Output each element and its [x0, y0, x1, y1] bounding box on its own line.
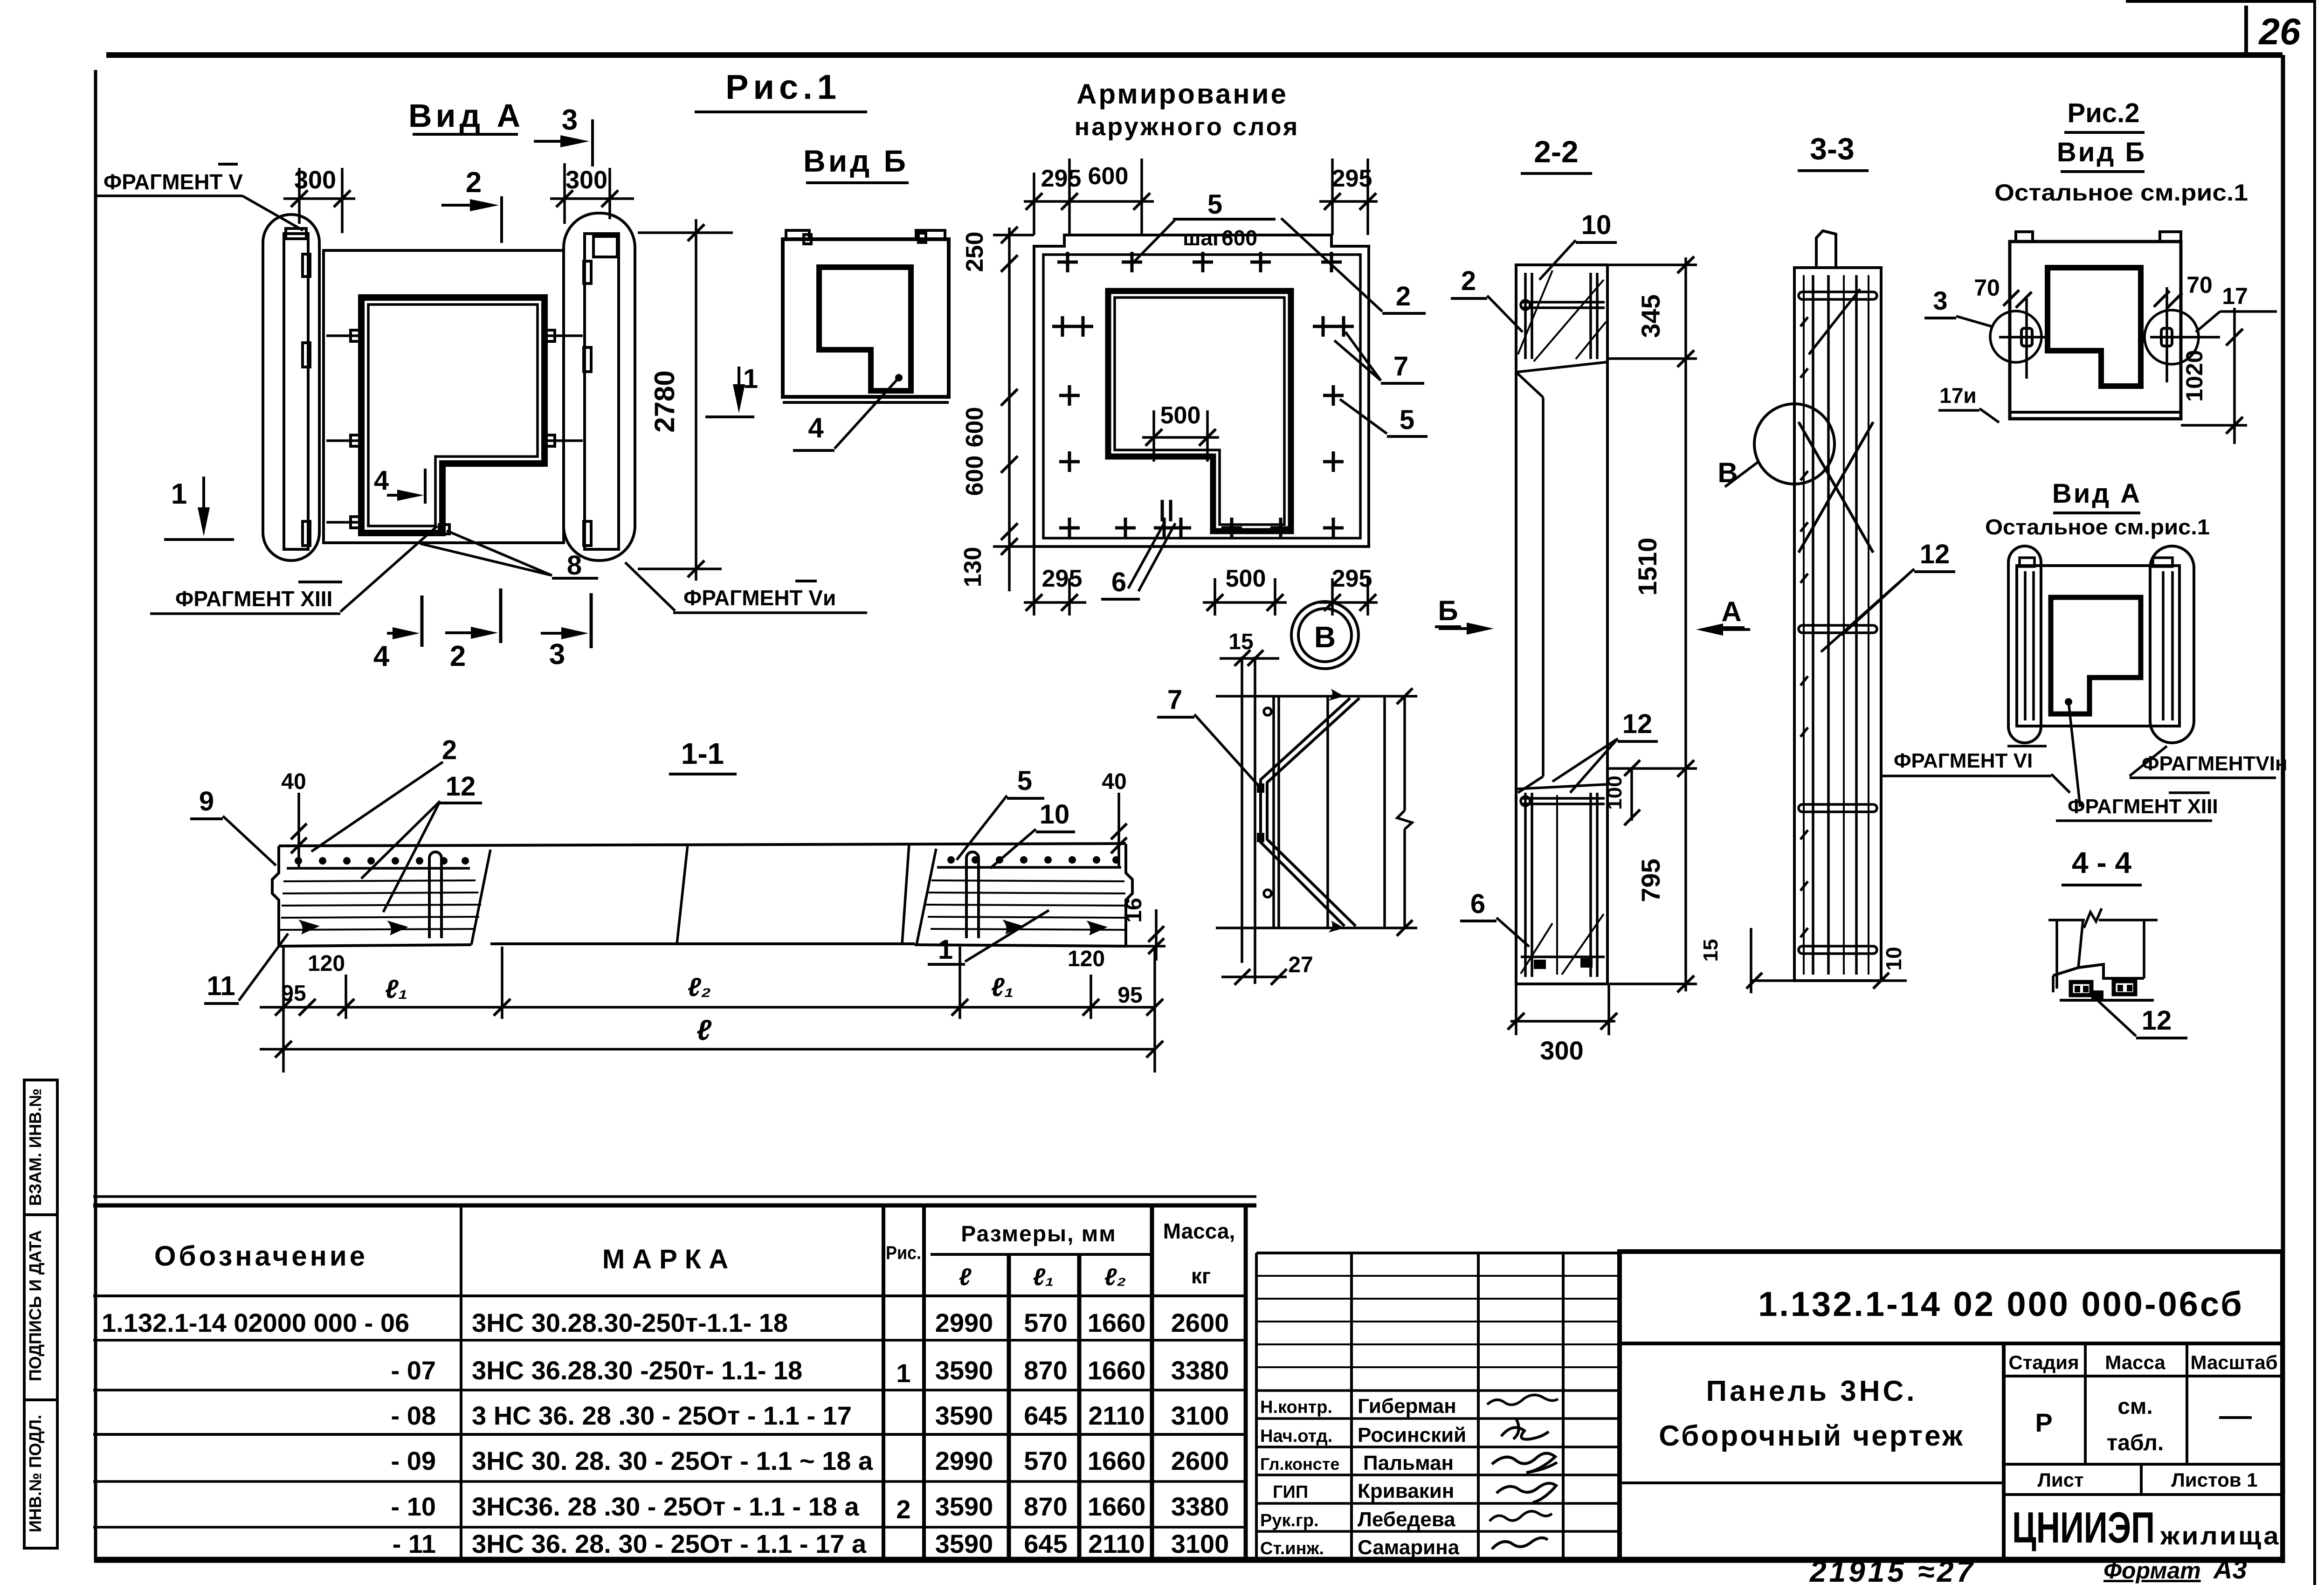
svg-text:17и: 17и: [1939, 383, 1976, 408]
left bolt: [2021, 328, 2032, 346]
svg-text:ПОДПИСЬ И ДАТА: ПОДПИСЬ И ДАТА: [26, 1230, 45, 1381]
right bolt: [2161, 328, 2172, 346]
window opening thick L: [2051, 597, 2141, 714]
svg-text:4: 4: [374, 465, 389, 496]
svg-text:Кривакин: Кривакин: [1358, 1480, 1454, 1502]
plus marks right col: [1313, 316, 1333, 337]
svg-text:95: 95: [1117, 983, 1142, 1008]
svg-text:3590: 3590: [935, 1356, 993, 1385]
bottom shelf: [2053, 964, 2144, 978]
svg-text:795: 795: [1636, 858, 1665, 902]
svg-text:2600: 2600: [1171, 1446, 1229, 1475]
table column line l2/massa: [1150, 1204, 1154, 1560]
svg-text:ФРАГМЕНТ XIII: ФРАГМЕНТ XIII: [175, 587, 332, 611]
svg-text:870: 870: [1024, 1356, 1067, 1385]
svg-text:1660: 1660: [1088, 1356, 1146, 1385]
sig col role/name: [1350, 1253, 1353, 1560]
svg-text:295: 295: [1042, 565, 1083, 592]
bottom double edge: [783, 401, 949, 404]
svg-text:4: 4: [373, 640, 390, 672]
svg-text:наружного слоя: наружного слоя: [1075, 113, 1300, 141]
svg-text:600: 600: [961, 456, 988, 496]
window opening thick L: [2048, 268, 2141, 386]
svg-text:ℓ₂: ℓ₂: [1104, 1264, 1126, 1291]
right block: [917, 849, 936, 945]
svg-text:250: 250: [961, 232, 988, 272]
left circle: [1990, 311, 2041, 362]
svg-text:12: 12: [2142, 1005, 2172, 1036]
right capsule: [564, 213, 635, 561]
svg-text:1: 1: [743, 364, 758, 394]
signature squiggle 4: [1496, 1483, 1556, 1502]
svg-text:ℓ: ℓ: [697, 1014, 712, 1046]
verticals: [2055, 920, 2058, 989]
svg-text:1: 1: [896, 1358, 910, 1388]
node circle on edge: [1754, 404, 1834, 484]
table column line l/l1: [1007, 1254, 1011, 1560]
svg-text:2: 2: [450, 640, 466, 672]
svg-text:295: 295: [1332, 565, 1372, 592]
svg-text:2: 2: [442, 735, 457, 765]
VIEW ARMIR: [959, 78, 1428, 669]
svg-text:345: 345: [1636, 294, 1665, 338]
FIG2 VID-B: [1924, 98, 2277, 444]
sidebar divider 2: [24, 1398, 57, 1401]
svg-text:- 10: - 10: [391, 1492, 436, 1521]
svg-text:5: 5: [1207, 189, 1222, 220]
svg-text:4 - 4: 4 - 4: [2072, 846, 2131, 879]
svg-text:3 НС 36. 28 .30 - 25От - 1.1 -: 3 НС 36. 28 .30 - 25От - 1.1 - 17: [472, 1401, 852, 1430]
right capsule: [2150, 546, 2194, 743]
table header bottom line: [93, 1294, 1246, 1297]
top tabs: [2016, 232, 2033, 242]
middle web bottom: [490, 942, 915, 945]
bottom border line: [94, 1557, 2283, 1563]
svg-text:Н.контр.: Н.контр.: [1260, 1398, 1332, 1417]
signature squiggle 2: [1501, 1419, 1549, 1440]
svg-text:570: 570: [1024, 1446, 1067, 1475]
svg-text:7: 7: [1393, 351, 1408, 381]
panel rect: [2017, 566, 2179, 726]
svg-text:Масса: Масса: [2105, 1351, 2165, 1373]
svg-text:3НС36. 28 .30 - 25От - 1.1 - 1: 3НС36. 28 .30 - 25От - 1.1 - 18 а: [472, 1492, 859, 1521]
svg-text:100: 100: [1603, 775, 1626, 810]
table subheader line: [931, 1253, 1152, 1256]
top bolts: [804, 235, 811, 244]
svg-text:В: В: [1717, 457, 1738, 488]
list divider: [2140, 1464, 2143, 1495]
dim 2780: [695, 219, 697, 581]
horizontal rebar loops: [1799, 292, 1877, 299]
svg-text:ГИП: ГИП: [1273, 1482, 1308, 1502]
svg-text:ℓ: ℓ: [959, 1264, 972, 1291]
svg-text:70: 70: [2186, 272, 2213, 298]
bent rebar double line: [1267, 698, 1359, 926]
svg-text:1660: 1660: [1088, 1446, 1146, 1475]
svg-text:1660: 1660: [1088, 1492, 1146, 1521]
svg-text:Остальное см.рис.1: Остальное см.рис.1: [1994, 180, 2248, 206]
svg-text:3НС 36.28.30 -250т- 1.1- 18: 3НС 36.28.30 -250т- 1.1- 18: [472, 1356, 802, 1385]
svg-text:9: 9: [199, 786, 214, 817]
column outline: [1516, 265, 1607, 984]
svg-text:6: 6: [1470, 889, 1485, 919]
svg-text:3НС 36. 28. 30 - 25От - 1.1 -: 3НС 36. 28. 30 - 25От - 1.1 - 17 а: [472, 1529, 867, 1558]
SECTION 2-2: [1435, 134, 1750, 1065]
svg-text:Обозначение: Обозначение: [154, 1240, 368, 1272]
svg-text:ЦНИИЭП: ЦНИИЭП: [2012, 1503, 2155, 1552]
bottom dim ticks: [1751, 979, 1794, 982]
svg-text:2990: 2990: [935, 1308, 993, 1337]
svg-text:Формат: Формат: [2103, 1557, 2201, 1584]
svg-text:Масштаб: Масштаб: [2190, 1351, 2277, 1373]
svg-text:Пальман: Пальман: [1363, 1452, 1454, 1474]
list row top line: [2004, 1463, 2283, 1466]
svg-text:Листов 1: Листов 1: [2171, 1469, 2257, 1491]
svg-text:27: 27: [1288, 953, 1313, 977]
small circles: [1264, 708, 1271, 715]
left capsule: [263, 215, 319, 561]
table row line 2: [93, 1389, 1246, 1391]
svg-text:645: 645: [1024, 1401, 1067, 1430]
value dash: [2219, 1416, 2252, 1419]
svg-text:600: 600: [1088, 163, 1129, 190]
sig block left edge: [1255, 1253, 1258, 1560]
svg-text:500: 500: [1160, 402, 1201, 429]
dim 100: [1630, 768, 1633, 821]
left border line: [94, 70, 97, 1562]
right outer sheet edge: [2313, 0, 2316, 1585]
svg-text:500: 500: [1226, 565, 1266, 592]
svg-text:16: 16: [1122, 898, 1146, 922]
sig col sign/date: [1562, 1253, 1565, 1560]
svg-text:5: 5: [1017, 766, 1032, 796]
svg-text:2990: 2990: [935, 1446, 993, 1475]
dim 16 right: [1155, 909, 1158, 961]
signature squiggle 3: [1492, 1453, 1557, 1473]
right inner border line: [2281, 55, 2285, 1563]
name cell bottom line: [1620, 1481, 2004, 1484]
top block bottom edge: [1516, 362, 1609, 372]
panel outline: [324, 250, 564, 543]
svg-text:17: 17: [2222, 283, 2248, 309]
leader dot: [2065, 698, 2072, 706]
svg-text:Лист: Лист: [2037, 1469, 2083, 1491]
left strip hooks: [303, 254, 310, 277]
svg-text:ФРАГМЕНТ XIII: ФРАГМЕНТ XIII: [2068, 795, 2218, 818]
svg-text:А3: А3: [2213, 1555, 2247, 1584]
svg-text:жилища: жилища: [2160, 1522, 2281, 1550]
svg-text:600: 600: [961, 407, 988, 448]
capsule strips: [2024, 571, 2027, 720]
svg-text:21915 ≈27: 21915 ≈27: [1809, 1555, 1976, 1585]
circled V mark: [1291, 602, 1359, 669]
svg-text:1: 1: [171, 478, 187, 510]
doc number row line: [1620, 1342, 2283, 1345]
table right edge massa: [1244, 1204, 1248, 1560]
table row line 5: [93, 1526, 1246, 1529]
svg-text:3100: 3100: [1171, 1401, 1229, 1430]
left block: [272, 846, 471, 946]
FIG2 VID-A: [1985, 478, 2288, 821]
window opening thick L: [361, 298, 545, 533]
table row line 4: [93, 1480, 1246, 1483]
panel square: [783, 239, 949, 397]
svg-text:70: 70: [1974, 275, 2000, 301]
svg-text:ℓ₂: ℓ₂: [688, 972, 711, 1002]
svg-text:8: 8: [567, 550, 582, 581]
sig name rows: [1256, 1389, 1620, 1392]
right circle: [2145, 310, 2199, 364]
window thin inner: [1115, 298, 1284, 525]
svg-text:Б: Б: [1438, 595, 1458, 626]
svg-text:1.132.1-14 02 000 000-06сб: 1.132.1-14 02 000 000-06сб: [1758, 1285, 2244, 1323]
svg-text:ФРАГМЕНТ Vи: ФРАГМЕНТ Vи: [683, 586, 836, 610]
extension verticals: [282, 948, 285, 1073]
svg-text:3: 3: [562, 104, 578, 136]
svg-text:1.132.1-14 02000 000 - 06: 1.132.1-14 02000 000 - 06: [102, 1308, 409, 1337]
vertical divider name/stamp: [2002, 1343, 2006, 1560]
svg-text:ℓ₁: ℓ₁: [1033, 1264, 1054, 1291]
svg-text:1: 1: [938, 934, 953, 965]
svg-text:3380: 3380: [1171, 1492, 1229, 1521]
table column line l1/l2: [1077, 1254, 1082, 1560]
svg-text:Р: Р: [2035, 1408, 2052, 1437]
plus marks left col: [1052, 316, 1073, 337]
left dark anchors: [298, 920, 320, 934]
svg-text:3: 3: [549, 638, 565, 671]
svg-text:2: 2: [466, 166, 482, 199]
svg-text:40: 40: [281, 769, 306, 794]
svg-text:4: 4: [808, 412, 824, 443]
VIEW VID-A: [96, 97, 867, 672]
svg-text:1-1: 1-1: [681, 737, 724, 770]
svg-text:295: 295: [1332, 165, 1372, 192]
l dimension with break: [1403, 696, 1406, 810]
svg-text:10: 10: [1581, 210, 1612, 240]
table top double line: [93, 1195, 1256, 1198]
svg-text:2110: 2110: [1088, 1529, 1145, 1558]
svg-text:А: А: [1721, 596, 1741, 627]
right dim chain: [1684, 257, 1687, 991]
svg-text:шаг600: шаг600: [1183, 226, 1257, 250]
right hook thick: [2114, 981, 2135, 994]
VIEW VID-B: [695, 68, 949, 450]
svg-text:Ст.инж.: Ст.инж.: [1260, 1539, 1324, 1558]
svg-text:5: 5: [1400, 405, 1414, 435]
svg-text:табл.: табл.: [2107, 1431, 2164, 1455]
SECTION 1-1: [190, 735, 1165, 1073]
svg-text:ИНВ.№ ПОДЛ.: ИНВ.№ ПОДЛ.: [26, 1415, 45, 1532]
dim 300 bottom: [1510, 1020, 1615, 1023]
bolt marks row2: [326, 439, 361, 442]
svg-text:3НС 30.28.30-250т-1.1- 18: 3НС 30.28.30-250т-1.1- 18: [472, 1308, 788, 1337]
right strip hooks: [584, 261, 591, 284]
top block rebar: [1524, 273, 1527, 359]
svg-text:Вид Б: Вид Б: [803, 144, 909, 178]
svg-text:- 09: - 09: [391, 1446, 436, 1475]
svg-text:Рис.1: Рис.1: [725, 68, 841, 106]
SIGNATURE BLOCK: [1256, 1253, 1620, 1560]
TITLE BLOCK: [1620, 1252, 2283, 1585]
svg-text:2110: 2110: [1088, 1401, 1145, 1430]
svg-text:6: 6: [1111, 567, 1126, 597]
sig block top line: [1256, 1252, 1620, 1254]
left rebar dots: [295, 857, 469, 865]
detail top edge: [1216, 695, 1417, 698]
svg-text:Нач.отд.: Нач.отд.: [1260, 1426, 1332, 1446]
svg-text:295: 295: [1041, 165, 1082, 192]
svg-text:Сборочный чертеж: Сборочный чертеж: [1659, 1420, 1965, 1452]
svg-text:2: 2: [1396, 281, 1411, 311]
list row bottom line: [2004, 1493, 2283, 1496]
svg-text:12: 12: [1920, 539, 1950, 569]
NODE B DETAIL: [1157, 630, 1417, 985]
sheet top edge: [2126, 0, 2315, 3]
weld blob: [2091, 990, 2103, 1002]
svg-text:3100: 3100: [1171, 1529, 1229, 1558]
table column line ris/sizes: [922, 1204, 926, 1560]
svg-text:Масса,: Масса,: [1163, 1219, 1235, 1243]
svg-text:3НС 30. 28. 30 - 25От - 1.1 ~: 3НС 30. 28. 30 - 25От - 1.1 ~ 18 а: [472, 1446, 873, 1475]
right dark anchors: [1002, 920, 1024, 934]
svg-text:Росинский: Росинский: [1358, 1424, 1466, 1447]
svg-text:Лебедева: Лебедева: [1358, 1508, 1455, 1531]
svg-text:12: 12: [446, 771, 476, 802]
table row line 1: [93, 1339, 1246, 1342]
svg-text:300: 300: [1540, 1036, 1583, 1065]
svg-text:Армирование: Армирование: [1076, 78, 1288, 110]
svg-text:3590: 3590: [935, 1529, 993, 1558]
bolt marks row1: [326, 334, 361, 337]
MAIN TABLE: [93, 1197, 1256, 1560]
svg-text:ℓ₁: ℓ₁: [991, 972, 1014, 1002]
strip top tabs: [2020, 558, 2034, 567]
svg-text:12: 12: [1622, 709, 1653, 739]
shaft inner lines: [1516, 784, 1607, 789]
svg-text:Гл.консте: Гл.консте: [1260, 1454, 1339, 1474]
svg-text:ФРАГМЕНТVIн: ФРАГМЕНТVIн: [2142, 752, 2288, 775]
window thin inner line: [368, 305, 538, 526]
svg-text:120: 120: [1068, 947, 1105, 971]
svg-text:570: 570: [1024, 1308, 1067, 1337]
svg-text:2: 2: [1461, 266, 1476, 296]
title block outline: [1620, 1252, 2283, 1560]
svg-text:120: 120: [308, 951, 345, 976]
svg-text:3-3: 3-3: [1810, 132, 1854, 166]
bolt mark bottom: [326, 521, 361, 524]
svg-text:ФРАГМЕНТ V: ФРАГМЕНТ V: [103, 170, 243, 194]
svg-text:3590: 3590: [935, 1492, 993, 1521]
signature squiggle 1: [1487, 1395, 1558, 1405]
dim line l: [260, 1048, 1155, 1051]
dim 1020: [2233, 308, 2236, 444]
panel square: [2010, 242, 2181, 419]
svg-text:- 08: - 08: [391, 1401, 436, 1430]
svg-text:1510: 1510: [1633, 538, 1662, 596]
left capsule: [2008, 546, 2041, 743]
top line with break: [2048, 919, 2085, 921]
hook marks: [1328, 689, 1344, 701]
svg-text:ℓ₁: ℓ₁: [385, 974, 408, 1004]
column outline: [1794, 268, 1881, 981]
svg-text:645: 645: [1024, 1529, 1067, 1558]
svg-text:Стадия: Стадия: [2008, 1351, 2079, 1373]
plus marks top row: [1052, 252, 1354, 538]
svg-text:130: 130: [959, 547, 986, 588]
svg-text:- 11: - 11: [393, 1529, 436, 1558]
svg-text:2600: 2600: [1171, 1308, 1229, 1337]
wall lines: [1241, 657, 1243, 963]
detail bottom edge: [1216, 927, 1417, 929]
top tabs: [786, 230, 809, 239]
plus marks bottom row: [1115, 518, 1136, 538]
weld blobs: [1257, 783, 1264, 793]
svg-text:Вид Б: Вид Б: [2057, 137, 2146, 167]
svg-text:ВЗАМ. ИНВ.№: ВЗАМ. ИНВ.№: [26, 1088, 45, 1206]
svg-text:10: 10: [1882, 947, 1906, 970]
svg-text:Рис.: Рис.: [886, 1243, 921, 1263]
svg-text:3590: 3590: [935, 1401, 993, 1430]
svg-text:2780: 2780: [649, 370, 680, 432]
diagonal braces: [1799, 422, 1873, 553]
svg-text:1020: 1020: [2181, 350, 2207, 401]
svg-text:Панель 3НС.: Панель 3НС.: [1706, 1375, 1917, 1407]
double bar mark for 6: [1162, 500, 1171, 521]
right hatch: [926, 880, 1126, 930]
window opening thick L: [1108, 291, 1291, 531]
left hatch: [280, 880, 481, 930]
svg-text:1660: 1660: [1088, 1308, 1146, 1337]
svg-text:870: 870: [1024, 1492, 1067, 1521]
right rebar dots: [947, 856, 1120, 864]
svg-text:40: 40: [1102, 769, 1126, 794]
svg-text:Вид А: Вид А: [2052, 478, 2142, 509]
left hairpin rebar: [429, 852, 441, 938]
SECTION 4-4: [2048, 846, 2187, 1038]
inner vertical rebars: [1803, 275, 1805, 975]
svg-text:кг: кг: [1191, 1264, 1211, 1288]
svg-text:Вид А: Вид А: [408, 97, 524, 134]
svg-text:- 07: - 07: [391, 1356, 436, 1385]
svg-text:7: 7: [1167, 685, 1182, 715]
window opening thick L: [819, 267, 911, 391]
stadia/massa/masshtab header line: [2004, 1375, 2283, 1377]
inner thin outline: [1043, 255, 1360, 538]
right hairpin rebar: [966, 852, 979, 938]
right strip: [585, 234, 619, 549]
SIDEBAR: [24, 1080, 57, 1548]
top block hatch: [1518, 270, 1552, 354]
sidebar divider 1: [24, 1213, 57, 1216]
page number box divider: [2244, 6, 2248, 55]
signature squiggle 5: [1490, 1511, 1552, 1521]
svg-text:ФРАГМЕНТ VI: ФРАГМЕНТ VI: [1894, 749, 2033, 772]
left strip: [284, 234, 308, 549]
svg-text:Остальное см.рис.1: Остальное см.рис.1: [1985, 515, 2210, 539]
small tick hatches on left rebar: [1800, 317, 1808, 937]
svg-text:Рук.гр.: Рук.гр.: [1260, 1511, 1319, 1530]
massa col: [2186, 1343, 2188, 1464]
dim line l1 l2: [260, 1006, 1155, 1009]
svg-text:15: 15: [1699, 939, 1722, 962]
sig thin rows: [1256, 1275, 1620, 1277]
signature squiggle 6: [1492, 1538, 1548, 1549]
svg-text:3380: 3380: [1171, 1356, 1229, 1385]
panel top edge: [279, 844, 1126, 846]
bottom thick edge: [2010, 411, 2181, 414]
sig col name/sign: [1477, 1253, 1480, 1560]
svg-text:Рис.2: Рис.2: [2068, 98, 2140, 128]
